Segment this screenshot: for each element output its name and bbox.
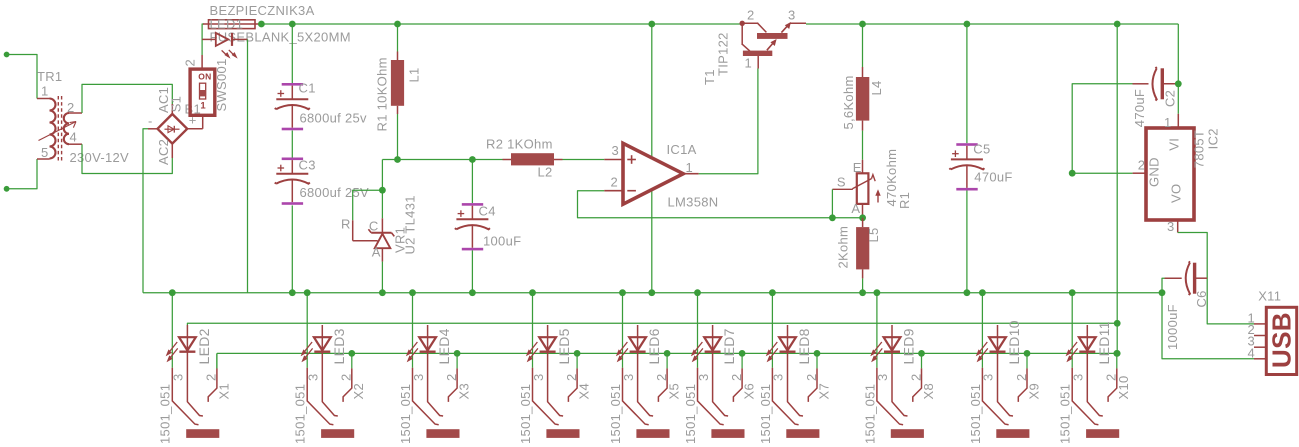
svg-text:3: 3 [612, 143, 620, 158]
wire top rail fuse to corner right [261, 24, 1178, 84]
svg-text:X5: X5 [667, 383, 682, 400]
svg-text:6800uf 25V: 6800uf 25V [300, 185, 370, 200]
svg-text:SWS001: SWS001 [214, 58, 229, 111]
wire USB pin4 [1162, 293, 1254, 359]
junction dot R1 node [394, 156, 401, 163]
voltage regulator IC2 7805T [1146, 128, 1194, 220]
svg-text:X10: X10 [1116, 375, 1131, 399]
svg-text:230V-12V: 230V-12V [70, 150, 130, 165]
svg-text:2: 2 [204, 373, 219, 381]
junction dot C2 right [1175, 80, 1182, 87]
junction dot L5 bottom [859, 289, 866, 296]
junction dot wiper feedback [829, 214, 836, 221]
svg-text:FUSEBLANK_5X20MM: FUSEBLANK_5X20MM [210, 30, 351, 45]
junction dot X3 pin2 [454, 350, 461, 357]
svg-text:2: 2 [804, 373, 819, 381]
svg-text:C2: C2 [1162, 90, 1177, 107]
svg-text:X7: X7 [816, 383, 831, 400]
junction dot TL431 bottom [379, 289, 386, 296]
wire TL431 cathode top [381, 190, 383, 218]
junction dot fuse output [258, 21, 265, 28]
junction dot X5 pin3 feed [619, 289, 626, 296]
connector X11 USB [1254, 307, 1297, 374]
svg-text:X1: X1 [216, 383, 231, 400]
svg-text:1501_051: 1501_051 [968, 384, 983, 444]
svg-text:L5: L5 [866, 227, 881, 242]
junction dot X10 pin2 [1113, 350, 1120, 357]
svg-text:1501_051: 1501_051 [862, 384, 877, 444]
svg-text:LED10: LED10 [1006, 320, 1022, 364]
svg-text:C3: C3 [299, 158, 316, 173]
resistor L5 2Kohm [856, 218, 869, 279]
svg-text:S1: S1 [168, 96, 183, 113]
svg-text:1501_051: 1501_051 [758, 384, 773, 444]
wire LED1 cathode down to bottom rail [247, 39, 249, 292]
svg-text:1501_051: 1501_051 [518, 384, 533, 444]
wire L4 to potentiometer [862, 131, 864, 160]
svg-text:X9: X9 [1026, 383, 1041, 400]
svg-text:X2: X2 [351, 383, 366, 400]
svg-text:R: R [341, 217, 351, 232]
wire C5 column top [966, 24, 968, 143]
svg-text:3: 3 [875, 373, 890, 381]
svg-text:2: 2 [339, 373, 354, 381]
svg-text:2Kohm: 2Kohm [836, 226, 851, 269]
svg-text:7805T: 7805T [1192, 130, 1207, 168]
svg-text:3: 3 [696, 373, 711, 381]
svg-text:1501_051: 1501_051 [293, 384, 308, 444]
svg-text:-: - [148, 114, 153, 129]
svg-text:2: 2 [729, 373, 744, 381]
svg-text:LED8: LED8 [796, 328, 812, 364]
junction dot C3 bottom [289, 289, 296, 296]
svg-text:A: A [851, 201, 860, 216]
svg-text:R2 1KOhm: R2 1KOhm [486, 136, 553, 151]
svg-text:L2: L2 [538, 165, 553, 180]
svg-text:S: S [837, 175, 846, 190]
junction dot op-amp column bottom [648, 289, 655, 296]
svg-text:E: E [853, 160, 862, 175]
net endpoint dot bottom-left [4, 186, 10, 192]
svg-text:100uF: 100uF [483, 234, 521, 249]
svg-text:3: 3 [1071, 373, 1086, 381]
transformer TR1 adjust arrow [39, 122, 77, 141]
connector X4 with LED LED5 [518, 293, 592, 444]
junction dot cathode rail right [1114, 350, 1121, 357]
junction dot X7 pin2 [814, 350, 821, 357]
junction dot X1 pin3 feed [169, 289, 176, 296]
svg-text:X11: X11 [1258, 289, 1281, 304]
svg-text:2: 2 [564, 373, 579, 381]
svg-text:C6: C6 [1194, 290, 1209, 307]
svg-text:IC1A: IC1A [667, 142, 697, 157]
svg-text:L1: L1 [407, 67, 422, 82]
svg-text:X8: X8 [921, 383, 936, 400]
svg-text:X4: X4 [577, 383, 592, 400]
wire TL431 anode to rail [381, 262, 383, 293]
resistor L4 5,6Kohm [856, 67, 869, 131]
svg-text:LED6: LED6 [646, 328, 662, 364]
svg-text:LED3: LED3 [331, 328, 347, 364]
svg-text:4: 4 [1248, 346, 1256, 361]
wire LED anode rail [187, 323, 1117, 325]
junction dot X3 pin3 feed [409, 289, 416, 296]
junction dot X6 pin2 [739, 350, 746, 357]
wire switch pin2 up to fuse [202, 24, 204, 55]
fuse LED1 BEZPIECZNIK3A [203, 20, 261, 29]
wire op-amp pin2 feedback [578, 191, 863, 218]
junction dot X2 pin2 [348, 350, 355, 357]
svg-text:LED9: LED9 [901, 328, 917, 364]
svg-text:C1: C1 [299, 81, 316, 96]
wire C4 bottom to rail [471, 250, 473, 292]
junction dot C4 bottom [469, 289, 476, 296]
switch pin1 to bridge plus wire [202, 115, 204, 129]
svg-text:LED7: LED7 [721, 328, 737, 364]
junction dot TL431 node [379, 187, 386, 194]
junction dot X7 pin3 feed [769, 289, 776, 296]
connector X10 with LED LED11 [1058, 293, 1132, 444]
svg-text:4: 4 [70, 130, 78, 145]
wire L4 top [862, 24, 864, 67]
wire C1 column [291, 24, 293, 293]
svg-text:5,6Kohm: 5,6Kohm [841, 75, 856, 129]
junction dot GND node [1069, 170, 1076, 177]
svg-text:1: 1 [200, 101, 206, 112]
svg-text:A: A [372, 245, 381, 260]
wire node rail to R2 [382, 160, 502, 191]
junction dot top rail C1 column [289, 21, 296, 28]
transistor T1 TIP122 [740, 21, 807, 69]
svg-text:3: 3 [531, 373, 546, 381]
svg-text:2: 2 [1138, 158, 1146, 173]
junction dot X2 pin3 feed [304, 289, 311, 296]
wire pot wiper down [831, 189, 833, 218]
junction dot X5 pin2 [664, 350, 671, 357]
svg-text:1501_051: 1501_051 [158, 384, 173, 444]
connector X7 with LED LED8 [758, 293, 832, 444]
svg-text:1501_051: 1501_051 [1058, 384, 1073, 444]
wire IC2 VI pin [1177, 84, 1179, 128]
connector X3 with LED LED4 [398, 293, 472, 444]
op-amp IC1A LM358N [604, 143, 698, 204]
wire C6 left [1162, 278, 1166, 293]
junction dot pot bottom [859, 214, 866, 221]
connector X5 with LED LED6 [608, 293, 682, 444]
connector X2 with LED LED3 [293, 293, 367, 444]
svg-text:L4: L4 [869, 80, 884, 95]
svg-text:GND: GND [1146, 157, 1161, 187]
svg-text:TIP122: TIP122 [715, 32, 730, 76]
wire raw supply vertical right [1116, 24, 1118, 353]
junction dot top rail C5 column [964, 21, 971, 28]
junction dot anode rail right [1114, 320, 1121, 327]
capacitor C4 [455, 203, 490, 250]
wire bottom power rail [143, 292, 1162, 294]
svg-text:LM358N: LM358N [668, 195, 719, 210]
svg-text:3: 3 [981, 373, 996, 381]
svg-text:2: 2 [747, 8, 755, 23]
junction dot X10 pin3 feed [1069, 289, 1076, 296]
svg-text:3: 3 [771, 373, 786, 381]
wire C5 bottom to rail [966, 191, 968, 293]
svg-text:1501_051: 1501_051 [608, 384, 623, 444]
wire C2 left loop [1072, 84, 1132, 173]
svg-text:C5: C5 [973, 142, 990, 157]
svg-text:3: 3 [621, 373, 636, 381]
svg-text:LED5: LED5 [556, 328, 572, 364]
junction dot X9 pin2 [1024, 350, 1031, 357]
junction dot top rail R1 column [394, 21, 401, 28]
wire TL431 ref loop [353, 190, 383, 241]
svg-text:1: 1 [41, 84, 49, 99]
junction dot X6 pin3 feed [694, 289, 701, 296]
resistor R1 10KOhm [391, 52, 404, 115]
svg-text:TR1: TR1 [37, 69, 62, 84]
svg-text:3: 3 [788, 8, 796, 23]
wire R1 bottom to node [397, 114, 399, 160]
svg-text:ON: ON [198, 71, 211, 81]
svg-text:2: 2 [1014, 373, 1029, 381]
svg-text:1501_051: 1501_051 [683, 384, 698, 444]
capacitor C2 470uF [1133, 67, 1179, 101]
junction dot top rail right column [1114, 21, 1121, 28]
transformer TR1 [37, 96, 62, 162]
resistor R2 1KOhm [503, 153, 563, 165]
bridge rectifier B1 [148, 104, 203, 158]
wire X1 pin2 corner [216, 353, 218, 368]
capacitor C1 [275, 83, 310, 130]
capacitor C6 1000uF [1165, 261, 1208, 295]
svg-text:3: 3 [411, 373, 426, 381]
svg-text:470uF: 470uF [974, 170, 1012, 185]
junction dot X4 pin3 feed [529, 289, 536, 296]
junction dot X4 pin2 [574, 350, 581, 357]
svg-text:AC2: AC2 [156, 139, 171, 165]
wire secondary pin4 to bridge AC2 [82, 144, 172, 173]
svg-text:3: 3 [306, 373, 321, 381]
svg-text:2: 2 [444, 373, 459, 381]
svg-text:1: 1 [1164, 115, 1172, 130]
svg-text:3: 3 [171, 373, 186, 381]
wire op-amp power vertical [651, 24, 653, 293]
svg-text:USB: USB [1267, 312, 1297, 368]
junction dot X8 pin2 [918, 350, 925, 357]
junction dot top rail L4 column [859, 21, 866, 28]
svg-text:470uF: 470uF [1132, 89, 1147, 127]
junction dot rail right end [1159, 289, 1166, 296]
svg-text:2: 2 [654, 373, 669, 381]
svg-text:3: 3 [1167, 219, 1175, 234]
svg-text:LED11: LED11 [1096, 321, 1112, 364]
net endpoint dot top-left [4, 52, 10, 58]
transformer TR1 primary wire top [7, 55, 37, 99]
wire R2 to op-amp pin3 [563, 159, 605, 161]
capacitor C5 [949, 143, 984, 190]
svg-text:LED4: LED4 [436, 328, 452, 364]
wire C4 top [471, 160, 473, 204]
wire op-amp output to T1 base [699, 69, 758, 174]
LED LED1 [202, 33, 247, 58]
svg-text:X6: X6 [742, 383, 757, 400]
svg-text:2: 2 [183, 59, 198, 67]
wire IC2 VO to USB pin1 [1178, 220, 1254, 324]
svg-text:2: 2 [67, 100, 75, 115]
shunt regulator U2 TL431 [368, 218, 394, 261]
svg-text:IC2: IC2 [1206, 128, 1221, 149]
transformer TR1 secondary coil [64, 113, 82, 144]
svg-text:VI: VI [1167, 138, 1182, 151]
svg-text:X3: X3 [457, 383, 472, 400]
connector X8 with LED LED9 [862, 293, 936, 444]
wire IC2 GND [1072, 172, 1146, 174]
svg-text:R1: R1 [897, 192, 912, 209]
svg-text:C: C [369, 219, 379, 234]
svg-text:R1 10KOhm: R1 10KOhm [375, 57, 390, 131]
svg-text:5: 5 [41, 145, 49, 160]
junction dot C5 bottom [964, 289, 971, 296]
svg-text:1000uF: 1000uF [1165, 304, 1180, 350]
svg-text:2: 2 [908, 373, 923, 381]
wire R1 column top [397, 24, 399, 52]
wire bridge minus to bottom rail [143, 129, 148, 293]
wire LED cathode rail [217, 352, 1117, 354]
junction dot X9 pin3 feed [979, 289, 986, 296]
connector X9 with LED LED10 [968, 293, 1042, 444]
svg-text:C4: C4 [479, 204, 496, 219]
connector X6 with LED LED7 [683, 293, 757, 444]
switch S1 SWS001 [190, 55, 215, 115]
svg-text:VO: VO [1168, 184, 1183, 203]
junction dot C4 node [469, 156, 476, 163]
junction dot top rail op-amp column [648, 21, 655, 28]
svg-text:6800uf 25v: 6800uf 25v [300, 110, 368, 125]
wire secondary pin2 to bridge AC1 [82, 84, 172, 113]
junction dot X8 pin3 feed [874, 289, 881, 296]
svg-text:LED2: LED2 [196, 328, 212, 364]
connector X1 with LED LED2 [158, 293, 232, 444]
svg-text:1: 1 [745, 56, 753, 71]
capacitor C3 [275, 158, 310, 205]
svg-text:U2 TL431: U2 TL431 [402, 195, 417, 254]
potentiometer R1 470Kohm [832, 160, 880, 218]
svg-text:1501_051: 1501_051 [398, 384, 413, 444]
wire L5 to bottom rail [862, 278, 864, 292]
svg-text:2: 2 [611, 175, 619, 190]
transformer TR1 primary wire bottom [7, 159, 37, 189]
svg-text:1: 1 [686, 160, 694, 175]
